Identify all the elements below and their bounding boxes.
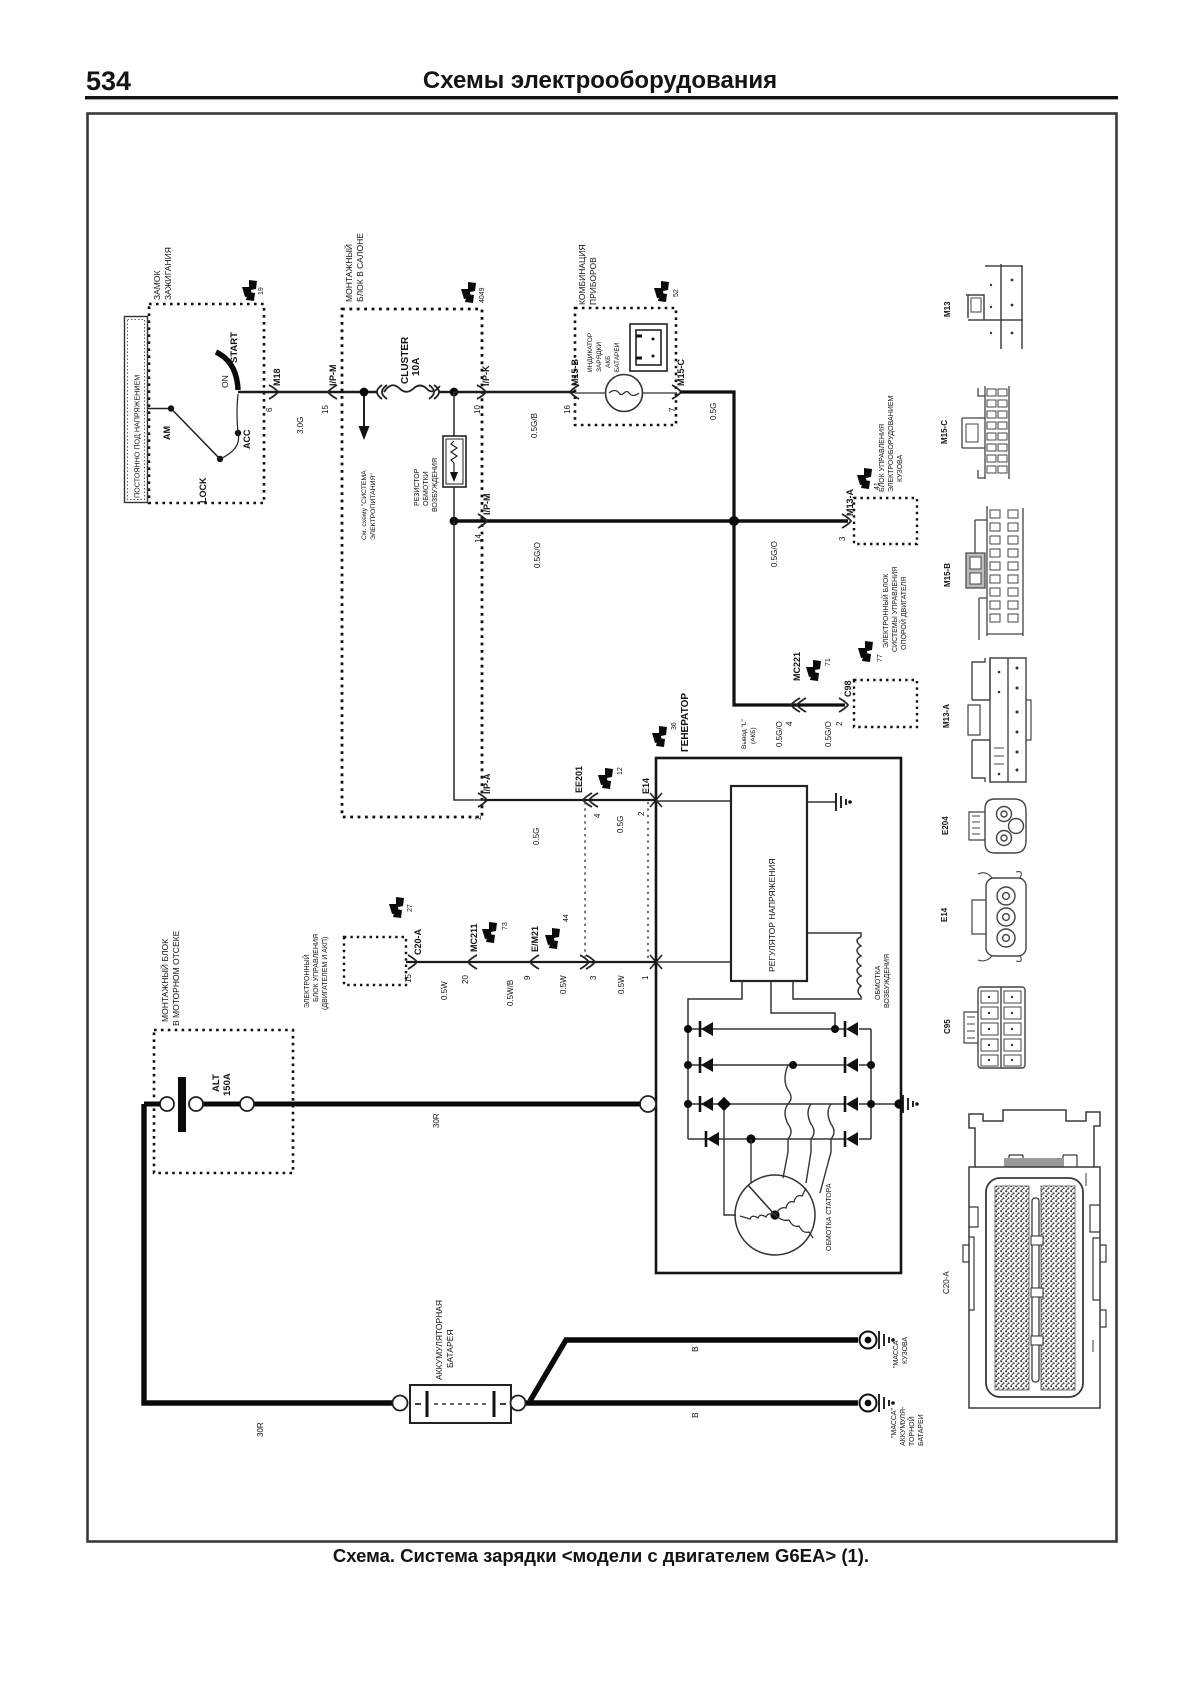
central key slot [1032,1198,1039,1382]
connector I/P-M 15 [328,385,337,399]
arrow to power system diagram [363,396,365,428]
svg-text:СИСТЕМЫ УПРАВЛЕНИЯ: СИСТЕМЫ УПРАВЛЕНИЯ [892,567,899,652]
thick wire from generator to engine room box [254,1102,640,1107]
excitation winding (ОБМОТКА ВОЗБУЖДЕНИЯ) [807,933,861,937]
svg-text:9: 9 [523,975,532,980]
svg-text:Схемы электрооборудования: Схемы электрооборудования [423,67,777,94]
svg-text:0.5G/O: 0.5G/O [824,721,833,747]
svg-text:"МАССА": "МАССА" [893,1338,900,1368]
svg-text:ON: ON [220,375,230,388]
svg-text:ПОСТОЯННО ПОД НАПРЯЖЕНИЕМ: ПОСТОЯННО ПОД НАПРЯЖЕНИЕМ [133,375,142,498]
svg-text:ЭЛЕКТРОННЫЙ БЛОК: ЭЛЕКТРОННЫЙ БЛОК [881,573,890,648]
svg-text:6: 6 [265,407,274,412]
svg-text:ALT: ALT [211,1074,222,1092]
ground terminal body [860,1332,877,1349]
svg-text:0.5G: 0.5G [616,816,625,833]
svg-text:E14: E14 [641,778,651,794]
node junction [360,388,369,397]
svg-text:73: 73 [502,922,509,930]
resistor box (РЕЗИСТОР ОБМОТКИ ВОЗБУЖДЕНИЯ) [443,436,466,487]
svg-text:44: 44 [563,914,570,922]
inline connector EE201 (lower row, pin 3) [580,955,589,969]
svg-text:I/P-K: I/P-K [481,365,491,386]
svg-text:2: 2 [474,815,483,820]
svg-text:CLUSTER: CLUSTER [400,336,411,384]
svg-text:0.5G: 0.5G [709,403,718,420]
svg-text:3: 3 [838,536,847,541]
svg-text:E204: E204 [941,816,950,835]
side tabs [963,1245,1106,1327]
svg-text:AM: AM [162,426,172,440]
dashed box [342,309,482,817]
wire to I/P-K [454,391,575,393]
svg-text:ЭЛЕКТРООБОРУДОВАНИЕМ: ЭЛЕКТРООБОРУДОВАНИЕМ [888,396,895,492]
svg-text:БЛОК В САЛОНЕ: БЛОК В САЛОНЕ [355,233,365,302]
svg-text:C20-A: C20-A [413,928,423,955]
wire resistor to node2 [453,487,455,521]
svg-text:ОБМОТКА: ОБМОТКА [875,965,882,1000]
svg-text:4: 4 [593,813,602,818]
svg-text:ЭЛЕКТРОПИТАНИЯ": ЭЛЕКТРОПИТАНИЯ" [370,473,377,540]
leads from row3/row4 nodes to stator [724,1110,736,1215]
svg-text:C98: C98 [843,680,853,697]
header rule [85,96,1118,99]
svg-text:M18: M18 [272,368,282,386]
svg-text:0.5G/O: 0.5G/O [775,721,784,747]
connector C20-A (engine ECU multi-pin) [942,1110,1106,1408]
svg-text:27: 27 [407,904,414,912]
svg-text:LOCK: LOCK [198,477,208,503]
svg-text:M13-A: M13-A [845,488,855,516]
connector I/P-A 2 [478,793,487,807]
svg-text:"МАССА": "МАССА" [891,1408,898,1438]
svg-text:БЛОК УПРАВЛЕНИЯ: БЛОК УПРАВЛЕНИЯ [313,934,320,1002]
svg-text:14: 14 [474,534,483,543]
rotation arc LOCK-ACC-ON [220,394,239,459]
ignition switch dashed box [149,304,264,503]
wire through cluster [575,392,677,394]
ground terminal battery [860,1395,877,1412]
svg-text:АККУМУЛЯТОРНАЯ: АККУМУЛЯТОРНАЯ [434,1300,444,1380]
svg-text:M15-C: M15-C [676,358,686,386]
dashed box [344,937,406,985]
svg-text:0.5W: 0.5W [617,975,626,994]
row 2 [688,1064,871,1066]
svg-text:20: 20 [461,975,470,984]
connector M13 [943,264,1023,349]
svg-text:36: 36 [671,722,678,730]
svg-text:15: 15 [404,974,413,983]
svg-text:C20-A: C20-A [942,1271,951,1294]
fuse CLUSTER 10A [377,385,440,399]
svg-text:ТОРНОЙ: ТОРНОЙ [907,1416,916,1446]
svg-text:ЗАМОК: ЗАМОК [152,271,162,300]
connector MC211 20 [468,955,477,969]
svg-text:I/P-M: I/P-M [328,365,338,387]
connector I/P-K 10 [477,385,486,399]
svg-text:19: 19 [258,287,265,295]
svg-text:АККУМУЛЯ-: АККУМУЛЯ- [900,1406,907,1446]
svg-text:M13-A: M13-A [942,704,951,728]
svg-text:МОНТАЖНЫЙ: МОНТАЖНЫЙ [343,244,354,302]
svg-text:БАТАРЕИ: БАТАРЕИ [614,342,621,372]
svg-text:16: 16 [563,405,572,414]
svg-text:MC211: MC211 [469,923,479,952]
svg-text:10A: 10A [411,358,422,376]
svg-text:E14: E14 [940,907,949,922]
battery pictogram [630,324,667,371]
svg-text:2: 2 [637,811,646,816]
svg-text:0.5G/O: 0.5G/O [533,542,542,568]
svg-text:ЭЛЕКТРОННЫЙ: ЭЛЕКТРОННЫЙ [302,954,311,1008]
svg-text:В МОТОРНОМ ОТСЕКЕ: В МОТОРНОМ ОТСЕКЕ [171,930,181,1026]
junction with M15-C drop [729,516,739,526]
row 4 [688,1138,871,1140]
voltage regulator [656,800,731,802]
svg-text:3.0G: 3.0G [296,417,305,434]
svg-text:0.5W: 0.5W [559,975,568,994]
wire M15-C to junction (thick L) [680,392,734,521]
svg-text:1: 1 [641,975,650,980]
connector M15-B 16 [570,385,579,399]
svg-text:ЗАРЯДКИ: ЗАРЯДКИ [596,342,603,372]
engine mount ECU dashed box [854,680,917,727]
svg-text:РЕГУЛЯТОР НАПРЯЖЕНИЯ: РЕГУЛЯТОР НАПРЯЖЕНИЯ [767,858,777,972]
svg-text:ГЕНЕРАТОР: ГЕНЕРАТОР [680,693,691,752]
row 1 [688,1028,871,1030]
svg-text:3: 3 [589,975,598,980]
svg-text:52: 52 [673,289,680,297]
svg-text:ACC: ACC [242,429,252,449]
svg-text:M15-C: M15-C [940,420,949,444]
svg-text:M13: M13 [943,301,952,317]
svg-text:0.5G/O: 0.5G/O [770,541,779,567]
left bus [687,1029,689,1139]
svg-text:Вывод "L": Вывод "L" [741,719,748,749]
svg-text:MC221: MC221 [792,652,802,681]
svg-text:БАТАРЕЯ: БАТАРЕЯ [445,1330,455,1368]
svg-text:B: B [690,1346,700,1352]
svg-text:71: 71 [825,658,832,666]
svg-text:2: 2 [835,721,844,726]
right outer bus [870,1029,872,1139]
contact AM [168,405,174,411]
svg-text:30R: 30R [256,1422,265,1437]
svg-text:534: 534 [86,66,131,96]
svg-text:ЗАЖИГАНИЯ: ЗАЖИГАНИЯ [163,247,173,300]
contact ACC [235,430,241,436]
connector MC221 4 [791,698,800,712]
connector E14 [940,872,1026,962]
regulator feeds to rectifier [688,981,742,1029]
svg-text:77: 77 [877,654,884,662]
connector M15-C [940,386,1009,479]
outer frame [88,114,1117,1542]
contact LOCK [217,456,223,462]
START thick arc [216,352,238,390]
body [969,1167,1100,1408]
svg-text:4: 4 [785,721,794,726]
connector M18 [269,385,278,399]
connector M13-A [942,658,1031,782]
wires to grounds [526,1400,858,1405]
svg-text:B: B [690,1412,700,1418]
svg-text:M15-B: M15-B [570,358,580,386]
svg-text:ВОЗБУЖДЕНИЯ: ВОЗБУЖДЕНИЯ [432,458,439,512]
svg-text:КУЗОВА: КУЗОВА [897,455,904,482]
svg-text:0.5G/B: 0.5G/B [530,413,539,438]
row 3 (output B) [688,1103,899,1105]
connector C98 2 [839,698,848,712]
connector M13-A 3 [842,514,851,528]
svg-text:10: 10 [473,405,482,414]
svg-text:12: 12 [617,767,624,775]
svg-text:КОМБИНАЦИЯ: КОМБИНАЦИЯ [577,244,587,305]
body control module dashed box [854,498,917,544]
svg-text:ПРИБОРОВ: ПРИБОРОВ [588,257,598,305]
node after fuse [450,388,459,397]
icon connector 19 [242,280,257,301]
svg-text:(АКБ): (АКБ) [750,727,757,744]
wire down from node [453,392,455,436]
terminal B circle on generator [640,1096,656,1112]
svg-text:БАТАРЕИ: БАТАРЕИ [918,1414,925,1446]
svg-text:I/P-M: I/P-M [482,494,492,516]
top bracket [969,1110,1100,1167]
svg-text:I/P-A: I/P-A [482,773,492,794]
indicator lamp [606,375,643,412]
phase leads (wavy) [783,1065,791,1178]
inline connector EE201 (upper row, pin 4) [583,793,592,807]
wire [238,391,377,393]
svg-text:АКБ: АКБ [605,356,612,368]
wire AM to box [148,408,170,410]
connector C95 [943,987,1025,1068]
svg-text:(ДВИГАТЕЛЕМ И АКП): (ДВИГАТЕЛЕМ И АКП) [322,937,329,1010]
svg-text:15: 15 [321,405,330,414]
connector M15-C 7 [672,385,681,399]
wire down the left and to battery [144,1104,400,1403]
node on generator edge + ground [894,1099,903,1108]
connector E204 [941,799,1026,853]
svg-text:ОБМОТКИ: ОБМОТКИ [423,471,430,506]
svg-text:См. схему "СИСТЕМА: См. схему "СИСТЕМА [361,470,368,540]
svg-text:EE201: EE201 [574,766,584,793]
box: постоянно под напряжением [125,317,148,503]
svg-text:МОНТАЖНЫЙ БЛОК: МОНТАЖНЫЙ БЛОК [159,939,170,1022]
svg-text:КУЗОВА: КУЗОВА [902,1337,909,1364]
svg-text:ОБМОТКА СТАТОРА: ОБМОТКА СТАТОРА [826,1183,833,1251]
wire C20-A -> generator (y=962) [406,961,656,963]
ground (regulator) [807,801,836,803]
svg-text:4049: 4049 [479,287,486,303]
svg-text:C95: C95 [943,1019,952,1034]
svg-text:150A: 150A [222,1073,233,1096]
pin fields (stippled) [995,1186,1029,1390]
wire node2 down to I/P-A [454,521,484,800]
box edge connector E14 lower [650,955,662,969]
svg-text:30R: 30R [432,1113,441,1128]
svg-text:M15-B: M15-B [943,563,952,587]
switch wiper line AM-LOCK [171,409,220,460]
svg-text:0.5G: 0.5G [532,828,541,845]
svg-text:Схема. Система зарядки <модели: Схема. Система зарядки <модели с двигате… [333,1545,869,1566]
svg-text:БЛОК УПРАВЛЕНИЯ: БЛОК УПРАВЛЕНИЯ [879,424,886,492]
svg-text:START: START [229,332,240,363]
connector C20-A 15 [408,955,417,969]
svg-text:0.5W: 0.5W [440,981,449,1000]
svg-text:ОПОРОЙ ДВИГАТЕЛЯ: ОПОРОЙ ДВИГАТЕЛЯ [899,577,908,650]
svg-text:РЕЗИСТОР: РЕЗИСТОР [414,468,421,506]
svg-text:ВОЗБУЖДЕНИЯ: ВОЗБУЖДЕНИЯ [884,954,891,1008]
svg-text:7: 7 [668,407,677,412]
svg-text:E/M21: E/M21 [530,926,540,952]
svg-text:0.5W/B: 0.5W/B [506,980,515,1006]
connector M15-B [943,506,1023,640]
connector E/M21 9 [530,955,539,969]
svg-text:ИНДИКАТОР: ИНДИКАТОР [587,333,594,372]
dashed harness boundary lines [584,802,586,958]
